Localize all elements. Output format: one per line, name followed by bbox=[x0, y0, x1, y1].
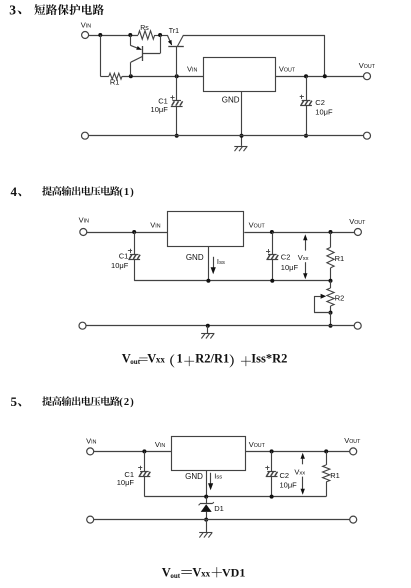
svg-text:10μF: 10μF bbox=[151, 105, 169, 114]
svg-text:GND: GND bbox=[185, 472, 203, 481]
svg-text:GND: GND bbox=[186, 253, 204, 262]
svg-text:xx: xx bbox=[299, 470, 305, 476]
svg-text:OUT: OUT bbox=[354, 220, 366, 226]
svg-text:3: 3 bbox=[9, 2, 16, 17]
svg-text:out: out bbox=[130, 358, 140, 366]
svg-text:V: V bbox=[147, 351, 156, 365]
svg-text:xx: xx bbox=[156, 354, 166, 364]
svg-text:out: out bbox=[170, 572, 180, 580]
svg-text:R2/R1: R2/R1 bbox=[195, 351, 229, 365]
svg-text:10μF: 10μF bbox=[281, 263, 299, 272]
svg-text:IN: IN bbox=[91, 439, 96, 445]
svg-text:IN: IN bbox=[155, 224, 160, 230]
svg-text:Tr1: Tr1 bbox=[169, 28, 179, 35]
svg-text:10μF: 10μF bbox=[111, 261, 129, 270]
svg-text:C2: C2 bbox=[281, 253, 291, 262]
svg-text:4: 4 bbox=[11, 184, 18, 199]
svg-text:OUT: OUT bbox=[364, 64, 376, 70]
svg-text:5: 5 bbox=[11, 394, 18, 409]
svg-text:C2: C2 bbox=[280, 471, 290, 480]
svg-text:OUT: OUT bbox=[284, 68, 296, 74]
svg-text:(1): (1) bbox=[119, 187, 135, 198]
svg-text:OUT: OUT bbox=[254, 224, 266, 230]
svg-text:10μF: 10μF bbox=[280, 480, 298, 489]
svg-text:IN: IN bbox=[192, 68, 197, 74]
svg-text:VD1: VD1 bbox=[222, 565, 245, 579]
svg-text:10μF: 10μF bbox=[117, 478, 135, 487]
svg-text:V: V bbox=[192, 565, 201, 579]
svg-text:IN: IN bbox=[86, 23, 91, 29]
svg-text:IN: IN bbox=[160, 443, 165, 449]
svg-text:R1: R1 bbox=[335, 254, 345, 263]
svg-text:R1: R1 bbox=[330, 471, 340, 480]
svg-text:1: 1 bbox=[177, 351, 183, 365]
svg-text:D1: D1 bbox=[214, 504, 224, 513]
svg-text:Rs: Rs bbox=[140, 25, 149, 32]
svg-text:OUT: OUT bbox=[254, 443, 266, 449]
svg-text:C1: C1 bbox=[119, 252, 129, 261]
svg-text:IN: IN bbox=[84, 219, 89, 225]
svg-text:R1: R1 bbox=[110, 78, 120, 87]
svg-text:C2: C2 bbox=[315, 98, 325, 107]
svg-text:10μF: 10μF bbox=[315, 108, 333, 117]
svg-text:ss: ss bbox=[219, 260, 225, 266]
svg-text:R2: R2 bbox=[335, 293, 345, 302]
svg-text:GND: GND bbox=[222, 96, 240, 105]
svg-text:OUT: OUT bbox=[349, 439, 361, 445]
svg-text:xx: xx bbox=[303, 256, 309, 262]
svg-text:ss: ss bbox=[216, 474, 222, 480]
svg-text:xx: xx bbox=[201, 568, 211, 578]
svg-text:Iss*R2: Iss*R2 bbox=[251, 351, 287, 365]
svg-text:(2): (2) bbox=[119, 397, 135, 408]
